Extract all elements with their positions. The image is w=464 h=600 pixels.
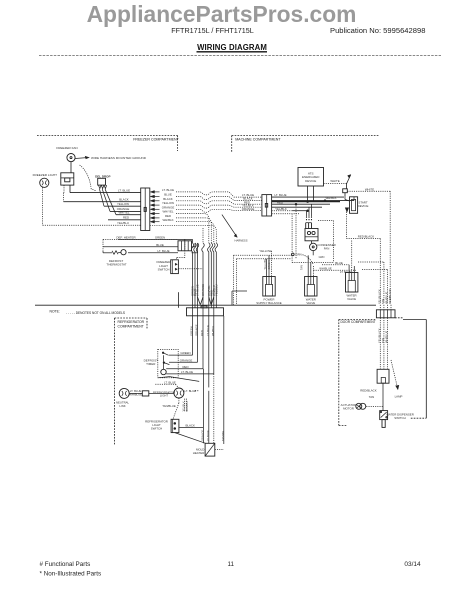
svg-text:VALVE: VALVE [306,301,315,305]
bus wire RED [272,203,330,205]
svg-text:TAN: TAN [300,265,303,270]
svg-text:# Functional Parts: # Functional Parts [40,561,91,568]
start device [350,197,358,214]
bus wire LT. BLUE [272,196,344,198]
svg-text:WH/BLK: WH/BLK [211,325,215,336]
svg-text:RED/BLACK: RED/BLACK [388,289,392,304]
machine compartment boundary top [232,135,379,137]
heater right wire [215,449,224,451]
svg-text:GREEN: GREEN [155,235,165,239]
power cord plug P3 [263,277,275,297]
wire LT. BLUE heater [128,252,178,254]
svg-text:GRN: GRN [319,255,325,259]
freezer connector right arrows [151,191,160,193]
svg-text:LT. BLUE: LT. BLUE [158,249,170,253]
defrost timer box [158,349,178,377]
defrost thermostat [121,250,126,255]
svg-text:YELLOW: YELLOW [259,249,271,253]
defrost heater element [178,241,192,251]
svg-text:SWITCH: SWITCH [394,416,405,420]
freezer light switch wire right [178,268,203,270]
svg-text:LT. BLUE: LT. BLUE [162,188,174,192]
svg-text:SWITCH: SWITCH [158,268,170,272]
svg-text:LAMP: LAMP [395,395,403,399]
svg-text:YEL/BLACK: YEL/BLACK [377,289,381,304]
svg-text:YELLOW: YELLOW [117,202,129,206]
svg-text:LT. BLUE: LT. BLUE [196,284,200,296]
svg-text:GREEN: GREEN [190,326,194,336]
freezer / machine bottom divider [35,304,376,306]
freezer compartment boundary top [37,135,178,137]
svg-text:NOTE:: NOTE: [50,309,60,313]
svg-text:SWITCH: SWITCH [151,427,162,431]
svg-text:LT. BLUE: LT. BLUE [206,325,210,336]
svg-text:YEL/BLU: YEL/BLU [214,284,218,296]
svg-text:WH/BLK: WH/BLK [162,218,173,222]
harness callout arrow [222,215,236,236]
svg-text:LINK: LINK [119,404,125,408]
mullion heater [205,443,215,456]
svg-text:FFTR1715L / FFHT1715L: FFTR1715L / FFHT1715L [171,26,253,35]
water valve plug P5 [346,273,358,293]
svg-text:RED: RED [123,216,129,220]
svg-text:ORANGE: ORANGE [180,358,193,362]
timer wire ORANGE [169,361,198,363]
wire YEL/BLU turn down [150,225,217,243]
svg-text:GREEN: GREEN [180,351,190,355]
wire YELLOW lower [234,254,292,256]
freezer light wire dashed [42,187,44,225]
svg-text:GRN: GRN [295,253,301,257]
svg-text:WIRING DIAGRAM: WIRING DIAGRAM [197,43,267,52]
svg-text:TIMER: TIMER [146,362,156,366]
wire damper to YELLOW [100,189,105,206]
svg-text:ORANGE: ORANGE [195,324,199,336]
svg-text:DEVICE: DEVICE [305,179,316,183]
svg-text:TAN/WH: TAN/WH [221,431,225,441]
compressor terminal pins [306,223,312,229]
svg-text:AppliancePartsPros.com: AppliancePartsPros.com [87,1,357,27]
condenser fan motor M2 [310,243,317,250]
svg-text:RED: RED [200,330,204,336]
door wire WH/BLUE [386,318,388,370]
door wire YEL/BLACK [379,318,381,370]
refrigerator light left L2 [119,388,129,398]
wire light to switch [178,398,180,403]
wire TAN to actuator [366,406,383,408]
svg-text:YEL/BLK: YEL/BLK [182,401,185,411]
lamp pointer [391,360,398,389]
svg-text:03/14: 03/14 [404,561,421,568]
svg-text:BLUE: BLUE [335,261,343,265]
wire stub left of P2 [177,292,179,308]
svg-text:HEATER: HEATER [193,451,205,455]
compressor enclosure dashed [291,214,293,263]
wire from bus to start device [344,197,346,200]
wire feeds plug P4 [307,255,309,276]
door compartment boundary [339,319,377,321]
compressor overload [305,229,318,241]
wire ORANGE run right [176,209,262,212]
svg-text:FREEZER COMPARTMENT: FREEZER COMPARTMENT [133,137,179,141]
svg-text:LT. BLUE: LT. BLUE [164,380,176,384]
svg-text:GREEN: GREEN [268,260,271,269]
svg-text:YEL/BLU: YEL/BLU [117,221,129,225]
door wire TAN [383,318,385,370]
bus wire thick [272,201,340,203]
ground junction [292,253,295,256]
svg-text:RED: RED [277,200,283,204]
freezer light switch feed [184,239,186,257]
svg-text:BLACK: BLACK [185,423,195,427]
dispenser module [377,369,389,383]
wire WH/BLK turn down [176,222,214,243]
svg-text:WH/BLUE: WH/BLUE [385,292,389,304]
defrost heater dashed box [103,238,178,240]
bus wire BLACK [272,200,354,202]
freezer harness connector J1 [141,188,150,231]
freezer fan bracket [61,173,74,185]
svg-text:11: 11 [228,561,235,568]
wire fan to connector BLACK [63,193,65,202]
refrigerator compartment boundary [115,317,148,319]
svg-text:LT. BLUE: LT. BLUE [206,430,210,441]
timer diagonals [170,377,200,382]
wire ATS drop [307,186,309,201]
light fuse link [142,391,149,396]
wire BLACK run right [176,201,262,204]
wire TAN dashed to door [358,261,384,263]
svg-text:BLACK: BLACK [119,197,129,201]
wire damper to WH/YEL [105,189,116,215]
svg-text:LT. BLUE: LT. BLUE [184,389,196,393]
wire WH/BLUE dashed to door [362,269,387,271]
title underline [197,51,268,53]
wire harness ground note [75,158,89,159]
svg-text:ORANGE: ORANGE [200,429,204,441]
wire fan motor drop [70,162,72,173]
wire RED turn down [176,218,211,243]
wire GREEN heater [118,238,193,240]
wire drops to compressor terminals [306,211,308,217]
svg-text:TAN: TAN [369,395,375,399]
svg-text:COMPARTMENT: COMPARTMENT [118,324,144,328]
svg-text:THERMOSTAT: THERMOSTAT [106,263,126,267]
wire WH/YEL turn down [176,214,209,243]
svg-text:YEL/BLK: YEL/BLK [275,207,287,211]
svg-text:DOOR COMPARTMENT: DOOR COMPARTMENT [341,320,376,324]
svg-text:LIGHT: LIGHT [160,394,169,398]
svg-text:MACHINE COMPARTMENT: MACHINE COMPARTMENT [235,138,281,142]
vertical wire bundle to refrigerator [191,243,194,308]
actuator motor M3 [356,403,362,409]
svg-text:ORANGE: ORANGE [201,284,205,296]
svg-text:- - - - - DENOTES NOT ON ALL: - - - - - DENOTES NOT ON ALL MODELS [66,311,125,315]
harness connector P2 [187,308,224,316]
wire merge marks [198,297,204,305]
bus dashed lower [272,213,299,215]
arrow terminal symbol [347,175,351,184]
svg-text:* Non-Illustrated Parts: * Non-Illustrated Parts [40,571,102,578]
bus wire YEL/BLK [272,206,322,208]
timer wire RED [166,368,203,370]
svg-text:LT. BLUE: LT. BLUE [118,188,130,192]
freezer light switch S2 [171,260,179,274]
svg-text:WH/BLUE: WH/BLUE [319,266,331,270]
svg-text:RED: RED [182,365,188,369]
wire YELLOW run right [176,205,262,208]
refrigerator light switch S3 [171,419,179,432]
wire feeds plug P5 [348,265,350,273]
compressor terminal dots [307,217,312,221]
svg-text:WH/BLUE: WH/BLUE [384,331,388,343]
svg-text:Publication No: 5995642898: Publication No: 5995642898 [330,26,425,35]
wire fan to connector LT. BLUE [69,185,71,193]
machine harness connector J2 [262,195,272,216]
svg-text:TAN: TAN [381,338,385,343]
svg-text:WHITE: WHITE [330,179,339,183]
svg-text:WIRE HARNESS MOUNTED GROUND: WIRE HARNESS MOUNTED GROUND [91,156,147,160]
corner segment near machine bottom [231,291,233,306]
svg-text:TAN/BLUE: TAN/BLUE [162,404,176,408]
door harness connector P6 [376,310,395,318]
wire BLUE run right [176,197,262,201]
junction dots [307,201,309,203]
svg-text:BLUE: BLUE [156,243,164,247]
ATS energized device U1 [298,168,324,187]
bus wire ORANGE dashed [272,210,293,212]
svg-text:TAN: TAN [381,299,385,304]
page top rule [39,54,441,56]
svg-text:FAN: FAN [324,247,330,251]
svg-text:ORANGE: ORANGE [242,207,255,211]
svg-text:DEVICE: DEVICE [358,204,369,208]
svg-text:VALVE: VALVE [347,297,356,301]
wire RED into connector [108,219,141,221]
freezer fan motor M1 [67,154,75,162]
svg-text:WH/BLK: WH/BLK [325,196,336,200]
svg-text:DEF. HEATER: DEF. HEATER [116,236,136,240]
svg-text:YEL/BLACK: YEL/BLACK [377,328,381,343]
wire WHITE dashed right [347,190,390,192]
wires below connector P2 [192,316,194,355]
wire GREEN lower [237,258,292,260]
timer wire GREEN [169,354,193,356]
timer wire LT. BLUE [166,373,214,375]
water dispenser switch [380,411,388,420]
svg-text:WH/BLUE: WH/BLUE [129,392,142,396]
svg-text:RED/BLACK: RED/BLACK [358,235,374,239]
wire overload to fan [311,241,313,244]
svg-text:YELLOW: YELLOW [264,258,267,269]
wires to heater [202,369,204,444]
wire LT. BLUE run right [176,192,262,197]
freezer light L1 [40,178,49,187]
svg-text:RED/BLK: RED/BLK [186,400,189,411]
wire feeds plug P3 [265,259,267,277]
wire bundle upper segments [192,239,194,243]
refrigerator light right L3 [174,388,184,398]
right side long wire [223,316,225,444]
wire BLUE to water valve [322,264,349,266]
svg-text:WH/YEL: WH/YEL [118,210,129,214]
svg-text:FREEZER FAN: FREEZER FAN [56,146,77,150]
wire damper to ORANGE [102,189,110,211]
wire WHITE to arrow junction [324,182,347,184]
fan to damper dashed curve [80,165,97,191]
svg-text:WHITE: WHITE [365,187,374,191]
svg-text:SUPPLY BALANCE: SUPPLY BALANCE [256,301,282,305]
svg-text:HARNESS: HARNESS [235,239,248,243]
wire BLUE heater [103,246,178,248]
svg-text:LT. BLUE: LT. BLUE [181,370,193,374]
water valve plug P4 [305,277,317,297]
svg-text:RED/BLACK: RED/BLACK [360,389,376,393]
svg-text:MOTOR: MOTOR [343,406,354,410]
svg-text:FREEZER LIGHT: FREEZER LIGHT [33,173,58,177]
svg-text:LT. BLUE: LT. BLUE [275,193,287,197]
wire RED/BLACK dashed [345,212,347,239]
